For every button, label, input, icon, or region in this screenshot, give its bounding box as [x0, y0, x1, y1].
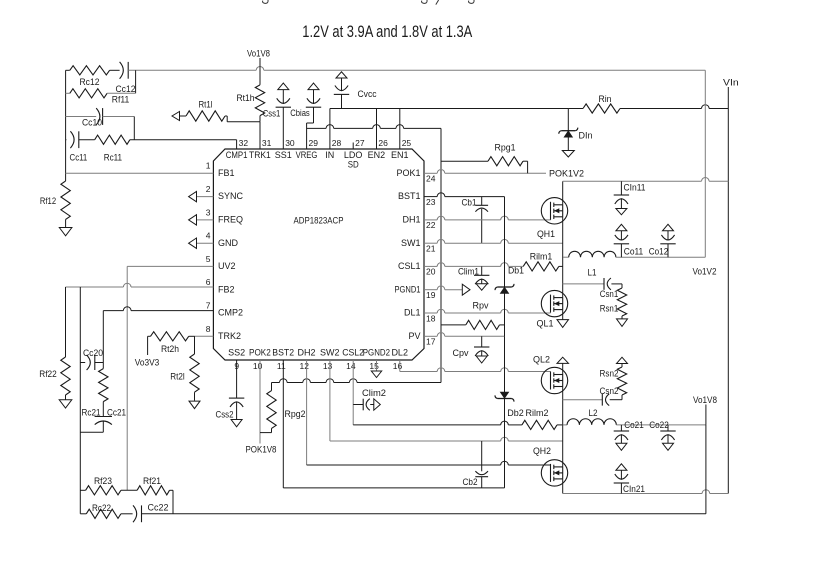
- svg-text:14: 14: [346, 361, 356, 371]
- svg-text:10: 10: [253, 361, 263, 371]
- svg-text:13: 13: [323, 361, 333, 371]
- svg-text:Cc20: Cc20: [83, 348, 103, 358]
- svg-text:CMP1: CMP1: [226, 150, 248, 160]
- svg-text:18: 18: [426, 313, 436, 323]
- svg-text:Co21: Co21: [624, 420, 644, 430]
- svg-text:20: 20: [426, 267, 436, 277]
- svg-text:EN2: EN2: [368, 150, 386, 160]
- svg-text:POK2: POK2: [249, 347, 271, 357]
- svg-text:19: 19: [426, 290, 436, 300]
- svg-text:SD: SD: [348, 159, 359, 169]
- svg-text:Db1: Db1: [508, 266, 524, 276]
- svg-text:SYNC: SYNC: [218, 191, 244, 201]
- svg-text:UV2: UV2: [218, 261, 236, 271]
- svg-text:Rpv: Rpv: [473, 301, 489, 311]
- svg-text:Rt2h: Rt2h: [161, 344, 179, 354]
- svg-text:11: 11: [277, 361, 286, 371]
- svg-text:Rc12: Rc12: [80, 77, 100, 87]
- svg-text:FREQ: FREQ: [218, 215, 243, 225]
- svg-text:Rc22: Rc22: [92, 503, 111, 513]
- svg-text:27: 27: [355, 138, 365, 148]
- svg-text:32: 32: [239, 138, 249, 148]
- svg-text:12: 12: [300, 361, 310, 371]
- svg-text:Cvcc: Cvcc: [358, 89, 377, 99]
- svg-text:PV: PV: [408, 331, 420, 341]
- svg-text:Csn2: Csn2: [600, 386, 619, 396]
- svg-text:DH2: DH2: [297, 347, 315, 357]
- svg-text:30: 30: [285, 138, 295, 148]
- svg-text:7: 7: [206, 301, 211, 311]
- svg-text:Cb1: Cb1: [462, 198, 477, 208]
- svg-text:23: 23: [426, 197, 436, 207]
- svg-text:26: 26: [378, 138, 388, 148]
- svg-text:8: 8: [206, 324, 211, 334]
- svg-text:CSL2: CSL2: [342, 347, 364, 357]
- svg-text:DL2: DL2: [391, 347, 408, 357]
- svg-text:Clim2: Clim2: [362, 388, 386, 398]
- svg-text:Rilm2: Rilm2: [526, 408, 549, 418]
- svg-text:Cbias: Cbias: [290, 108, 310, 118]
- svg-text:Vo1V8: Vo1V8: [693, 395, 717, 405]
- svg-text:Db2: Db2: [507, 408, 524, 418]
- svg-text:28: 28: [332, 138, 342, 148]
- svg-text:BST2: BST2: [272, 347, 294, 357]
- svg-text:DH1: DH1: [402, 215, 420, 225]
- svg-text:L2: L2: [589, 408, 598, 418]
- svg-text:Rf11: Rf11: [112, 95, 130, 105]
- svg-text:Csn1: Csn1: [600, 289, 619, 299]
- svg-text:1: 1: [206, 161, 211, 171]
- svg-text:PGND2: PGND2: [363, 347, 390, 357]
- svg-text:POK1V2: POK1V2: [549, 169, 584, 179]
- svg-text:31: 31: [262, 138, 272, 148]
- svg-text:15: 15: [369, 361, 379, 371]
- svg-text:Rf23: Rf23: [94, 476, 112, 486]
- svg-text:29: 29: [309, 138, 319, 148]
- svg-text:5: 5: [206, 254, 211, 264]
- svg-text:CIn11: CIn11: [624, 183, 646, 193]
- svg-text:BST1: BST1: [398, 191, 421, 201]
- svg-text:QH1: QH1: [537, 229, 555, 239]
- svg-text:Rf22: Rf22: [39, 369, 57, 379]
- svg-text:Rt1h: Rt1h: [237, 93, 255, 103]
- svg-text:Rt1l: Rt1l: [199, 100, 213, 110]
- svg-text:Cc21: Cc21: [107, 408, 126, 418]
- svg-text:DIn: DIn: [579, 131, 593, 141]
- svg-text:SS1: SS1: [275, 150, 292, 160]
- svg-text:QL1: QL1: [537, 319, 554, 329]
- svg-text:SW2: SW2: [320, 347, 340, 357]
- svg-text:Co11: Co11: [624, 247, 644, 257]
- svg-text:TRK2: TRK2: [218, 331, 241, 341]
- svg-text:Rc21: Rc21: [82, 408, 101, 418]
- svg-text:3: 3: [206, 207, 211, 217]
- svg-text:EN1: EN1: [391, 150, 409, 160]
- svg-text:Rc11: Rc11: [104, 152, 122, 162]
- svg-text:L1: L1: [588, 268, 597, 278]
- svg-text:2: 2: [206, 184, 211, 194]
- svg-text:QH2: QH2: [533, 446, 551, 456]
- svg-text:CSL1: CSL1: [398, 261, 421, 271]
- svg-text:Cc12: Cc12: [116, 84, 136, 94]
- svg-text:Rin: Rin: [599, 94, 612, 104]
- svg-text:Rilm1: Rilm1: [530, 252, 553, 262]
- svg-text:Cb2: Cb2: [463, 477, 478, 487]
- svg-text:Cc11: Cc11: [70, 152, 88, 162]
- svg-text:17: 17: [426, 337, 436, 347]
- svg-text:Cc22: Cc22: [148, 503, 169, 513]
- svg-text:Rpg1: Rpg1: [495, 143, 516, 153]
- svg-text:SS2: SS2: [228, 347, 245, 357]
- svg-text:VREG: VREG: [296, 150, 318, 160]
- svg-text:VIn: VIn: [723, 78, 739, 88]
- svg-text:CIn21: CIn21: [623, 484, 645, 494]
- svg-text:Clim1: Clim1: [458, 267, 479, 277]
- svg-text:CMP2: CMP2: [218, 308, 243, 318]
- svg-text:Rsn2: Rsn2: [600, 369, 619, 379]
- svg-text:1.2V at 3.9A and 1.8V at 1.3A: 1.2V at 3.9A and 1.8V at 1.3A: [302, 23, 472, 41]
- svg-text:25: 25: [402, 138, 412, 148]
- svg-text:SW1: SW1: [401, 238, 421, 248]
- svg-text:Co22: Co22: [649, 420, 669, 430]
- svg-text:FB2: FB2: [218, 284, 235, 294]
- svg-text:Cc10: Cc10: [82, 118, 102, 128]
- svg-text:Rsn1: Rsn1: [600, 303, 619, 313]
- svg-text:Css2: Css2: [216, 410, 234, 420]
- svg-text:Co12: Co12: [649, 247, 669, 257]
- svg-text:POK1V8: POK1V8: [246, 445, 277, 455]
- svg-text:ADP1823ACP: ADP1823ACP: [294, 216, 344, 226]
- svg-text:22: 22: [426, 220, 436, 230]
- svg-text:IN: IN: [325, 150, 334, 160]
- svg-text:6: 6: [206, 277, 211, 287]
- svg-text:24: 24: [426, 174, 436, 184]
- svg-text:TRK1: TRK1: [249, 150, 271, 160]
- svg-text:POK1: POK1: [396, 168, 420, 178]
- svg-text:Rf21: Rf21: [143, 476, 161, 486]
- svg-text:FB1: FB1: [218, 168, 235, 178]
- svg-text:Rpg2: Rpg2: [285, 409, 306, 419]
- svg-text:GND: GND: [218, 238, 239, 248]
- svg-text:Vo1V2: Vo1V2: [693, 267, 717, 277]
- svg-text:PGND1: PGND1: [395, 284, 421, 294]
- svg-text:DL1: DL1: [404, 308, 421, 318]
- svg-text:QL2: QL2: [533, 355, 550, 365]
- svg-text:LDO: LDO: [344, 150, 363, 160]
- svg-text:Vo3V3: Vo3V3: [135, 358, 160, 368]
- svg-text:Rt2l: Rt2l: [170, 372, 185, 382]
- svg-text:16: 16: [393, 361, 403, 371]
- svg-text:Css1: Css1: [263, 109, 281, 119]
- svg-text:Rf12: Rf12: [40, 196, 56, 206]
- svg-text:4: 4: [206, 231, 211, 241]
- svg-text:Cpv: Cpv: [453, 348, 469, 358]
- svg-text:Vo1V8: Vo1V8: [247, 49, 270, 59]
- svg-text:21: 21: [426, 243, 436, 253]
